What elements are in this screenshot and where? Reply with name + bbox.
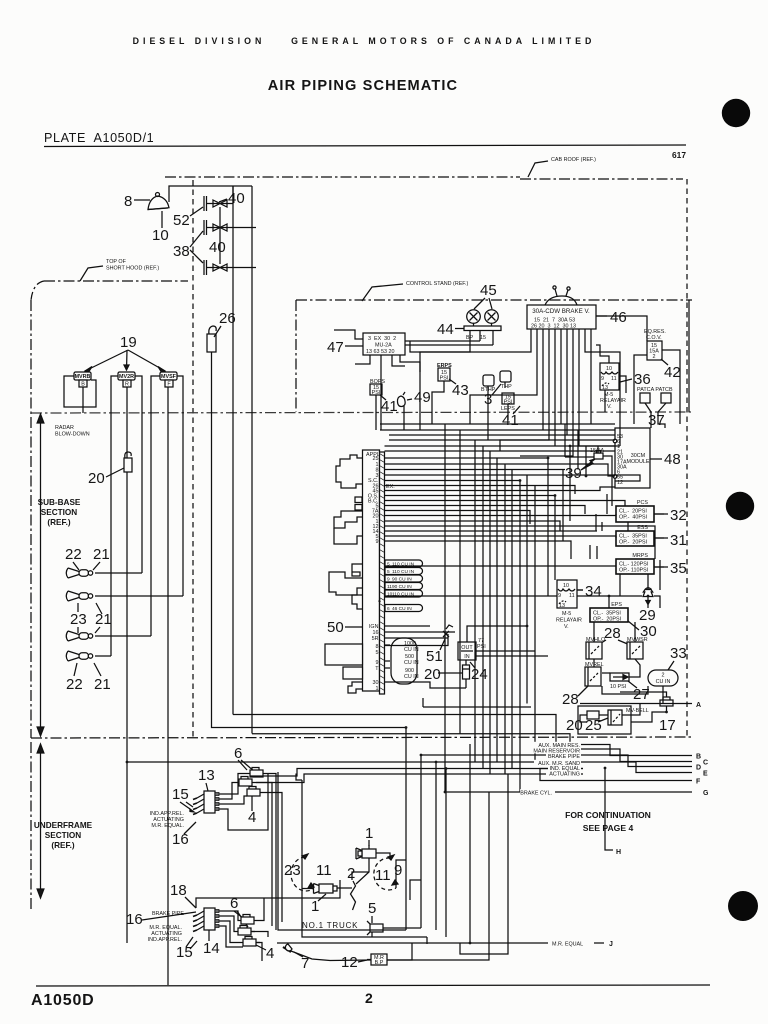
label 28b <box>562 691 579 708</box>
wire <box>606 494 608 514</box>
leaders 6b <box>234 911 248 927</box>
wire <box>392 358 405 366</box>
label 45 <box>480 282 497 299</box>
wire <box>596 316 647 341</box>
pressure switch ERPS 43 <box>437 363 452 382</box>
wire <box>385 464 616 476</box>
svg-text:CAB ROOF (REF.): CAB ROOF (REF.) <box>551 157 596 163</box>
svg-text:OP.- 20PSI: OP.- 20PSI <box>619 540 647 546</box>
brake valve 46 <box>527 286 596 330</box>
svg-text:17: 17 <box>659 717 676 734</box>
wire row label underlays <box>520 742 592 945</box>
equipment silhouette 6 <box>352 595 363 609</box>
wire <box>622 704 640 716</box>
svg-text:OUT: OUT <box>461 645 473 651</box>
label 21a <box>93 546 110 563</box>
wire <box>396 860 406 888</box>
wire <box>601 522 603 531</box>
svg-text:(REF.): (REF.) <box>51 841 74 850</box>
left underframe boundary <box>30 742 32 910</box>
equipment silhouette 3 <box>334 528 363 544</box>
wire <box>422 698 424 707</box>
control valve 47 MV-2A <box>363 333 405 358</box>
manifold pin column <box>380 452 385 694</box>
pressure switch MRPS 35 <box>616 553 654 574</box>
label 26 <box>219 310 236 327</box>
leaders 15b <box>186 937 197 949</box>
wire <box>410 334 470 352</box>
wire MV2R center drop <box>126 387 128 943</box>
label 43 <box>452 382 469 399</box>
svg-text:24: 24 <box>471 666 488 683</box>
hose connector 14 <box>193 908 219 932</box>
choke 77 PSI <box>477 638 486 650</box>
svg-text:15: 15 <box>480 335 486 341</box>
wire <box>476 655 548 657</box>
wire <box>619 574 621 596</box>
wire <box>212 727 406 729</box>
wire <box>385 565 617 567</box>
leader 3a <box>492 384 501 395</box>
leader 20 <box>106 468 124 477</box>
wire M.R. equal J <box>594 942 604 944</box>
wire <box>389 434 615 436</box>
wire <box>256 774 583 783</box>
label 19 <box>120 334 137 351</box>
wire <box>476 650 535 652</box>
svg-text:EPS: EPS <box>611 602 622 608</box>
wire <box>482 446 484 769</box>
wire <box>577 589 583 591</box>
wire horn4 <box>95 655 111 657</box>
svg-text:48: 48 <box>664 451 681 468</box>
label 39 <box>565 465 582 482</box>
magnet valve MVSF <box>160 372 177 388</box>
svg-text:MU-2A: MU-2A <box>375 343 392 349</box>
footer plate code <box>31 992 95 1009</box>
wire <box>511 470 513 769</box>
svg-text:4: 4 <box>248 809 256 826</box>
leader 39 <box>581 459 595 470</box>
svg-text:19: 19 <box>120 334 137 351</box>
wire <box>215 926 243 947</box>
leader 21a22a <box>73 562 100 570</box>
svg-text:42: 42 <box>664 364 681 381</box>
wire <box>487 386 489 440</box>
check valve 38b <box>204 260 256 275</box>
svg-text:22: 22 <box>66 676 83 693</box>
svg-text:28: 28 <box>562 691 579 708</box>
text mr equal b <box>148 925 182 943</box>
wire <box>444 424 446 792</box>
wire <box>500 329 549 451</box>
wire <box>385 631 456 633</box>
label 23t <box>284 862 301 879</box>
wire <box>560 329 562 424</box>
wire <box>554 496 556 581</box>
equipment silhouette 7 <box>325 644 363 665</box>
wire <box>654 513 664 515</box>
wire MVRB loop <box>64 376 96 407</box>
svg-text:D: D <box>696 765 701 772</box>
label 3a <box>484 391 492 408</box>
leader 16a <box>184 822 196 834</box>
leader 22b21c <box>74 663 101 676</box>
wire <box>435 762 437 930</box>
wires manifold to oval <box>385 645 391 668</box>
magnet valve MV2R <box>118 372 135 388</box>
equipment silhouette 1 <box>336 455 363 488</box>
svg-text:THP: THP <box>501 384 512 390</box>
wire <box>385 495 556 497</box>
registration dot middle <box>726 492 754 520</box>
wire <box>662 686 664 704</box>
wire <box>385 625 431 627</box>
svg-text:2: 2 <box>653 354 656 360</box>
reservoir capsule 1 <box>385 560 423 568</box>
M-5 relayair text 36 <box>600 392 626 410</box>
dashed arc 11b <box>374 858 396 890</box>
label 16a <box>172 831 189 848</box>
label 9 <box>394 862 402 879</box>
equipment silhouette 8 <box>343 667 363 679</box>
svg-text:B: B <box>696 754 701 761</box>
svg-text:90 CU IN: 90 CU IN <box>392 577 412 583</box>
wire <box>566 329 568 435</box>
check valve 24 OUT/IN <box>458 642 476 660</box>
svg-text:90 CU IN: 90 CU IN <box>392 584 412 590</box>
magnet valve 25 <box>608 710 622 725</box>
svg-text:MODULE: MODULE <box>626 459 649 465</box>
svg-text:4: 4 <box>266 945 274 962</box>
check valve 38a <box>204 220 256 235</box>
leader 47 <box>345 345 363 347</box>
label 11a <box>316 862 332 879</box>
label 14 <box>203 940 220 957</box>
svg-text:13 63 53 20: 13 63 53 20 <box>366 349 394 355</box>
svg-text:PATCA PATCB: PATCA PATCB <box>637 387 673 393</box>
air horn 22a <box>66 568 92 578</box>
wire <box>426 937 428 944</box>
registration dot top <box>722 99 750 127</box>
svg-text:15: 15 <box>172 786 189 803</box>
choke 20 <box>463 665 470 679</box>
label 17 <box>659 717 676 734</box>
title <box>268 78 458 94</box>
svg-text:M-5: M-5 <box>562 611 571 617</box>
wire <box>385 501 626 507</box>
svg-text:RELAYAIR: RELAYAIR <box>600 398 626 404</box>
wire <box>603 456 612 461</box>
wire <box>385 480 521 482</box>
top of short hood boundary <box>31 281 188 300</box>
svg-text:5: 5 <box>376 650 379 656</box>
cab roof leader <box>528 161 548 177</box>
wire <box>215 774 250 795</box>
svg-text:36: 36 <box>634 371 651 388</box>
label 12 <box>341 954 358 971</box>
wire <box>595 514 597 531</box>
wire <box>465 679 467 688</box>
wire <box>400 358 420 372</box>
svg-text:21: 21 <box>93 546 110 563</box>
M-5 relayair text 34 <box>556 611 582 630</box>
switch THP <box>500 371 512 390</box>
svg-text:29: 29 <box>639 607 656 624</box>
header company line <box>133 36 596 46</box>
leader 34 <box>577 589 583 591</box>
label 34 <box>585 583 602 600</box>
wire <box>337 887 352 889</box>
wire horn3 <box>95 635 151 637</box>
label J <box>609 941 613 948</box>
short hood leader <box>80 266 103 281</box>
drain valve 26 <box>207 326 216 352</box>
svg-text:40: 40 <box>228 190 245 207</box>
svg-text:MV2R: MV2R <box>119 374 134 380</box>
plate label <box>44 131 154 145</box>
svg-text:OP.- 110PSI: OP.- 110PSI <box>619 568 648 574</box>
label 51 <box>426 648 443 665</box>
air horn 23 <box>66 631 92 641</box>
wire <box>232 186 234 204</box>
wire <box>302 780 427 937</box>
wire <box>385 541 572 559</box>
underframe section label <box>34 821 93 850</box>
label 42 <box>664 364 681 381</box>
wire <box>385 637 449 639</box>
label 4b <box>266 945 274 962</box>
wire <box>215 916 238 932</box>
svg-text:2: 2 <box>365 990 373 1006</box>
equipment silhouette 9 <box>348 682 363 693</box>
svg-text:1: 1 <box>376 686 379 692</box>
svg-text:MVRB: MVRB <box>75 374 91 380</box>
wire <box>385 634 449 646</box>
wire <box>577 595 642 597</box>
leader 51 <box>440 639 445 650</box>
underframe dimension arrow line <box>37 744 44 898</box>
label 6b <box>230 895 238 912</box>
svg-text:SHORT HOOD (REF.): SHORT HOOD (REF.) <box>106 266 159 272</box>
magnet valve MVRB <box>74 372 91 388</box>
wire row C <box>583 749 692 762</box>
label 20b <box>424 666 441 683</box>
wire <box>380 358 382 430</box>
wire <box>258 898 264 921</box>
svg-text:617: 617 <box>672 150 686 160</box>
wire <box>420 755 422 928</box>
wire <box>619 376 626 393</box>
top of short hood label <box>106 259 159 272</box>
svg-text:J: J <box>609 941 613 948</box>
leaders 45 <box>474 298 492 309</box>
svg-text:6: 6 <box>387 606 390 612</box>
label 2 <box>347 865 355 882</box>
svg-text:BRAKE PIPE: BRAKE PIPE <box>548 754 580 760</box>
wire <box>383 927 421 929</box>
svg-text:MVSF: MVSF <box>161 374 177 380</box>
leaders 15a <box>180 802 194 812</box>
leader 18 <box>185 897 196 908</box>
svg-text:H: H <box>616 849 621 856</box>
wire <box>385 530 598 532</box>
wire <box>470 329 537 424</box>
wire <box>278 772 406 930</box>
safety valve 29 <box>643 588 653 605</box>
wire <box>565 456 594 458</box>
wire <box>629 659 640 677</box>
svg-text:21: 21 <box>95 611 112 628</box>
wire <box>619 428 621 446</box>
svg-text:CU IN: CU IN <box>404 660 419 666</box>
wire <box>267 774 276 931</box>
svg-text:3 EX 30 2: 3 EX 30 2 <box>368 336 396 342</box>
svg-text:110 CU IN: 110 CU IN <box>392 569 415 575</box>
leaders 19 <box>85 350 165 373</box>
svg-text:26: 26 <box>219 310 236 327</box>
wire <box>647 603 649 608</box>
label G <box>703 790 709 797</box>
control stand label <box>406 281 468 287</box>
leader 48 <box>650 458 662 460</box>
wire <box>542 329 544 430</box>
leader 1a <box>368 840 370 846</box>
svg-text:A: A <box>696 702 701 709</box>
brake cyl 1b <box>314 884 338 894</box>
wire H <box>605 769 613 851</box>
svg-text:SECTION: SECTION <box>41 508 77 517</box>
wire <box>590 329 592 424</box>
svg-text:R: R <box>125 382 129 388</box>
sub-base dimension arrow line <box>37 414 44 736</box>
label 38 <box>173 243 190 260</box>
wire <box>554 329 556 446</box>
svg-text:41: 41 <box>502 412 519 429</box>
wire <box>519 481 521 793</box>
cock 51 <box>443 625 453 637</box>
wire <box>420 329 531 372</box>
svg-text:G: G <box>703 790 709 797</box>
svg-text:5R: 5R <box>372 636 379 642</box>
svg-text:44: 44 <box>437 321 454 338</box>
MV-BELL enclosure <box>578 706 649 734</box>
svg-text:41: 41 <box>381 398 398 415</box>
label H <box>616 849 621 856</box>
wire check column B <box>251 186 253 734</box>
gauge stems <box>474 324 492 327</box>
cock 5 <box>367 921 383 935</box>
wire <box>604 390 606 412</box>
label D <box>696 765 701 772</box>
pressure switch BOPS 41 <box>370 379 385 396</box>
reservoir capsule 2 <box>385 568 423 576</box>
svg-text:26 20 3 12 30 13: 26 20 3 12 30 13 <box>531 324 576 330</box>
svg-text:31: 31 <box>670 532 687 549</box>
magnet valve MVWSR <box>627 637 648 659</box>
wire <box>634 622 636 642</box>
svg-text:35: 35 <box>670 560 687 577</box>
leader 12 <box>358 960 367 962</box>
leader 35 <box>654 566 668 568</box>
wire <box>250 769 583 777</box>
wire <box>277 942 548 944</box>
relay valve 36 <box>600 363 619 391</box>
svg-text:10: 10 <box>606 366 612 372</box>
label 41a <box>381 398 398 415</box>
svg-text:CU IN: CU IN <box>404 674 419 680</box>
wire <box>507 404 509 420</box>
svg-text:MRPS: MRPS <box>632 553 648 559</box>
pin 4 stub <box>378 599 381 605</box>
leader 41b <box>513 406 520 414</box>
wire check column A <box>232 186 234 715</box>
wire <box>662 350 680 424</box>
label 37 <box>648 412 665 429</box>
label 35 <box>670 560 687 577</box>
manifold 50 body <box>363 450 380 691</box>
fitting 49 <box>397 392 405 407</box>
wire <box>589 545 591 559</box>
leader 8 <box>134 199 150 201</box>
svg-text:(REF.): (REF.) <box>47 518 70 527</box>
svg-text:9: 9 <box>601 376 604 382</box>
label 49 <box>414 389 431 406</box>
wire <box>596 546 598 559</box>
svg-text:PLATE A1050D/1: PLATE A1050D/1 <box>44 131 154 145</box>
label 20c <box>566 717 583 734</box>
wire row B <box>583 745 692 756</box>
svg-text:IN: IN <box>464 654 469 660</box>
label 11b <box>375 867 391 884</box>
text ind app rel a <box>150 811 184 829</box>
leader 5 <box>371 916 373 923</box>
wire <box>356 858 369 884</box>
wire <box>196 880 340 908</box>
wire <box>647 574 649 589</box>
wire <box>432 381 444 424</box>
leader 7 <box>294 952 303 957</box>
wire <box>659 560 661 590</box>
cocks PATCA PATCB 37 <box>637 387 673 412</box>
label 41b <box>502 412 519 429</box>
wire <box>385 457 549 459</box>
label 24 <box>471 666 488 683</box>
hood box top line <box>169 186 252 202</box>
svg-text:23: 23 <box>70 611 87 628</box>
wire <box>256 783 272 927</box>
wire MVRB drop <box>82 387 84 413</box>
wire <box>654 566 664 568</box>
svg-text:40: 40 <box>209 239 226 256</box>
svg-text:11: 11 <box>316 862 332 879</box>
pressure switch PCS 32 <box>616 500 654 522</box>
cab roof label <box>551 157 596 163</box>
wire MV2R left drop <box>111 376 118 656</box>
reservoir capsule 5 <box>385 590 423 598</box>
control stand leader <box>362 284 403 301</box>
wire <box>474 440 476 762</box>
leader 25 <box>598 718 608 722</box>
page number 617 <box>672 150 686 160</box>
label 10 <box>152 227 169 244</box>
bell 8 <box>148 193 169 210</box>
svg-text:16: 16 <box>172 831 189 848</box>
wire <box>385 486 576 495</box>
brake cyl 1a <box>356 845 376 859</box>
leader 46 <box>596 315 607 317</box>
wire <box>385 450 616 452</box>
